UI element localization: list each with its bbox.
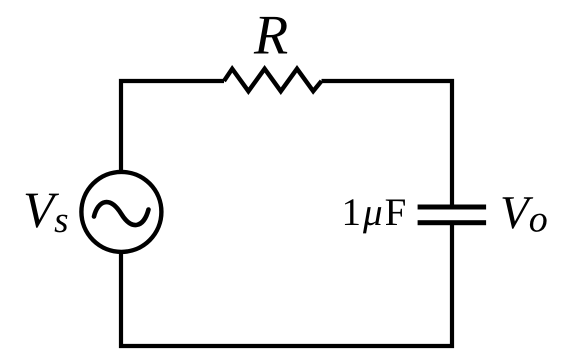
svg-text:1μF: 1μF bbox=[342, 191, 409, 234]
resistor R bbox=[224, 69, 322, 91]
wire: from capacitor bottom plate down, across bottom, up to source bottom bbox=[121, 225, 452, 347]
sine symbol inside source bbox=[94, 202, 149, 225]
label R bbox=[253, 5, 288, 67]
svg-text:Vs: Vs bbox=[23, 183, 69, 241]
voltage source Vs circle bbox=[81, 172, 161, 252]
svg-text:R: R bbox=[253, 5, 288, 67]
wire: left branch from source top up and across to resistor bbox=[121, 81, 224, 171]
capacitor 1uF top plate bbox=[418, 205, 487, 210]
label Vo bbox=[500, 187, 548, 241]
label Vs bbox=[23, 183, 69, 241]
svg-text:Vo: Vo bbox=[500, 187, 548, 241]
label 1uF bbox=[342, 191, 409, 234]
capacitor 1uF bottom plate bbox=[418, 220, 487, 225]
wire: top right across and down to capacitor top plate bbox=[322, 81, 453, 206]
